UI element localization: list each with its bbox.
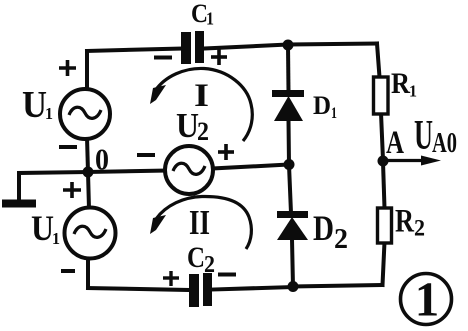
- wire middle node to D2: [289, 165, 291, 213]
- wire top horizontal left segment: [87, 49, 181, 52]
- svg-text:II: II: [189, 203, 210, 242]
- wire D1 to middle node: [287, 120, 292, 165]
- wire bottom-left vertical: [86, 257, 90, 288]
- svg-text:2: 2: [414, 216, 425, 241]
- node A junction: [378, 156, 389, 167]
- polarity + left of C2: [163, 271, 179, 286]
- junction top node: [283, 40, 294, 51]
- svg-text:0: 0: [95, 142, 109, 177]
- label D2: [313, 208, 348, 255]
- wire node A to R2: [383, 162, 385, 208]
- label R1: [391, 67, 417, 101]
- output arrow UAO: [388, 156, 441, 166]
- wire top-left vertical: [85, 51, 89, 91]
- polarity - right of C2: [218, 273, 236, 277]
- svg-text:I: I: [194, 78, 209, 114]
- svg-text:2: 2: [197, 117, 209, 146]
- wire ground stub: [19, 172, 88, 200]
- label UAO: [414, 113, 457, 159]
- node 0 junction: [83, 167, 94, 178]
- svg-text:2: 2: [204, 252, 215, 278]
- diode D1: [272, 90, 304, 121]
- ground: [2, 200, 36, 208]
- loop II arrow: [150, 196, 251, 249]
- capacitor C1: [181, 31, 204, 64]
- AC source U1 bottom: [65, 208, 116, 259]
- figure number circle 1: [401, 272, 452, 327]
- svg-text:D: D: [313, 208, 334, 248]
- svg-text:R: R: [395, 204, 415, 240]
- svg-text:2: 2: [334, 223, 348, 255]
- wire bottom left segment: [88, 288, 188, 290]
- polarity - left of C1: [154, 56, 172, 60]
- svg-text:1: 1: [45, 104, 53, 123]
- AC source U1 top: [60, 89, 110, 139]
- svg-text:1: 1: [206, 9, 214, 29]
- polarity + above U1 top: [59, 60, 76, 76]
- wire middle left segment: [88, 171, 166, 173]
- svg-text:U: U: [22, 84, 47, 126]
- svg-text:A: A: [386, 125, 404, 161]
- wire diode branch top: [286, 45, 291, 93]
- wire D2 to bottom node: [292, 239, 293, 287]
- resistor R1: [374, 77, 389, 114]
- label R2: [395, 204, 425, 241]
- label D1: [313, 91, 337, 122]
- svg-text:1: 1: [415, 272, 440, 327]
- wire node 0 to lower source: [88, 172, 89, 209]
- wire bottom right segment: [293, 285, 383, 287]
- label U1 top: [22, 84, 53, 126]
- loop I arrow: [150, 68, 252, 141]
- label U1 bottom: [31, 208, 60, 248]
- svg-text:1: 1: [52, 229, 60, 248]
- svg-text:A0: A0: [432, 128, 457, 159]
- polarity + right of U2: [218, 144, 234, 160]
- polarity + above U1 bottom: [63, 182, 81, 198]
- AC source U2: [165, 146, 213, 194]
- svg-text:D: D: [313, 91, 331, 120]
- label C2: [187, 241, 215, 278]
- wire R1 to node A: [381, 113, 383, 160]
- svg-text:U: U: [31, 208, 54, 248]
- junction bottom node: [288, 281, 299, 292]
- wire right rail top to R1: [377, 44, 380, 78]
- label U2: [176, 106, 209, 146]
- polarity - below U1 top: [59, 145, 77, 149]
- polarity - left of U2: [137, 153, 155, 157]
- svg-text:U: U: [414, 113, 433, 159]
- polarity + right of C1: [211, 49, 227, 65]
- svg-text:R: R: [391, 67, 410, 100]
- junction middle node: [284, 159, 295, 170]
- polarity - below U1 bottom: [61, 269, 75, 273]
- wire upper source to node 0: [87, 137, 88, 172]
- label C1: [191, 0, 214, 29]
- resistor R2: [378, 208, 392, 243]
- svg-text:C: C: [187, 241, 205, 274]
- wire middle right segment: [212, 165, 289, 169]
- capacitor C2: [189, 273, 212, 307]
- wire top horizontal right segment: [204, 44, 377, 49]
- wire R2 to bottom-right corner: [383, 242, 385, 285]
- svg-text:1: 1: [409, 82, 417, 101]
- diode D2: [277, 211, 308, 240]
- svg-text:1: 1: [331, 105, 337, 122]
- wire bottom node to C2: [213, 287, 293, 290]
